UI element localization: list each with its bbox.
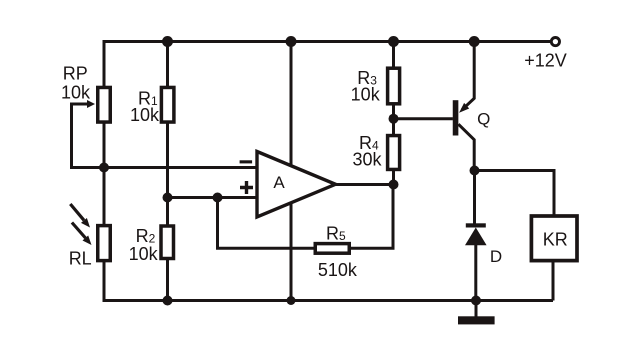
wire relay bottom bbox=[552, 261, 555, 301]
wire RP wiper bbox=[72, 104, 89, 168]
svg-text:KR: KR bbox=[543, 229, 568, 249]
wire base bbox=[394, 117, 453, 120]
svg-text:+12V: +12V bbox=[524, 51, 567, 71]
node left rail / wiper bbox=[99, 163, 109, 173]
wire R4 column bbox=[392, 119, 395, 185]
resistor R1 body bbox=[161, 87, 174, 122]
svg-text:A: A bbox=[273, 173, 285, 192]
diode D anode triangle bbox=[465, 228, 487, 246]
wire R1-R2 column bbox=[166, 42, 169, 301]
wire left rail bbox=[103, 40, 106, 302]
wire op-amp power column bbox=[290, 42, 293, 301]
node output junction bbox=[389, 180, 399, 190]
relay coil KR box bbox=[531, 216, 577, 261]
svg-text:RP: RP bbox=[63, 63, 88, 83]
node feedback tap bbox=[213, 193, 223, 203]
photoresistor RL body bbox=[98, 226, 111, 261]
node top rail / op-amp power bbox=[286, 36, 297, 47]
op-amp minus sign bbox=[240, 160, 253, 163]
node collector junction bbox=[470, 166, 480, 176]
wire ground stub bbox=[475, 301, 478, 318]
svg-text:510k: 510k bbox=[318, 260, 358, 280]
wire top rail bbox=[103, 40, 551, 43]
node bottom rail / ground bbox=[471, 296, 481, 306]
wire R3 column bbox=[392, 42, 395, 119]
wire inverting input bbox=[70, 166, 257, 169]
node bottom rail / op-amp power bbox=[287, 296, 296, 305]
wire collector to relay bbox=[475, 171, 555, 217]
op-amp plus sign bbox=[240, 181, 253, 194]
svg-text:30k: 30k bbox=[352, 150, 382, 170]
resistor R2 body bbox=[161, 226, 174, 259]
wire bottom rail bbox=[103, 299, 554, 302]
RL light arrow 2 bbox=[72, 223, 86, 239]
resistor RP body bbox=[98, 87, 111, 122]
node bottom rail / R2 bbox=[163, 296, 173, 306]
svg-text:R2: R2 bbox=[136, 226, 156, 246]
svg-text:10k: 10k bbox=[129, 244, 159, 264]
wire diode to bottom rail bbox=[474, 244, 477, 301]
RP wiper arrowhead bbox=[87, 100, 95, 108]
wire emitter bbox=[462, 42, 474, 110]
resistor R4 body bbox=[388, 136, 400, 170]
resistor R5 body bbox=[315, 244, 349, 254]
svg-text:10k: 10k bbox=[351, 85, 381, 105]
node top rail / R3 bbox=[388, 36, 399, 47]
resistor R3 body bbox=[388, 68, 400, 104]
svg-text:RL: RL bbox=[69, 249, 92, 269]
wire R5 to output bbox=[351, 185, 393, 249]
ground symbol bbox=[458, 316, 495, 324]
svg-text:10k: 10k bbox=[61, 82, 91, 102]
wire feedback tap bbox=[218, 198, 314, 249]
wire collector bbox=[458, 124, 474, 170]
wire collector to diode bbox=[473, 171, 476, 225]
wire output bbox=[335, 183, 394, 186]
svg-text:D: D bbox=[490, 247, 502, 266]
terminal +12V bbox=[551, 38, 559, 46]
transistor Q base bar bbox=[453, 100, 459, 135]
diode D cathode bar bbox=[466, 223, 486, 227]
svg-text:R5: R5 bbox=[326, 223, 346, 243]
svg-text:10k: 10k bbox=[130, 105, 160, 125]
node base junction bbox=[389, 114, 399, 124]
svg-text:Q: Q bbox=[477, 110, 490, 129]
wire non-inverting input bbox=[168, 196, 258, 199]
transistor Q emitter arrowhead bbox=[459, 103, 469, 113]
node top rail / emitter bbox=[469, 36, 480, 47]
RL light arrow 1 bbox=[70, 204, 84, 220]
op-amp U1 triangle bbox=[257, 152, 336, 218]
node R1-R2 divider tap bbox=[163, 193, 173, 203]
node top rail / R1 bbox=[162, 36, 173, 47]
